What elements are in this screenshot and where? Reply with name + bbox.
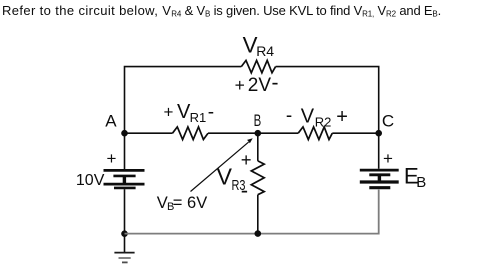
wire middle-right: R2 to node C — [332, 132, 378, 134]
svg-text:B: B — [254, 111, 262, 130]
svg-text:-: - — [286, 106, 292, 127]
label -VR2+ — [286, 105, 348, 129]
svg-text:2V: 2V — [248, 75, 272, 96]
svg-text:C: C — [382, 112, 394, 131]
label EB — [404, 163, 426, 191]
node C junction dot — [375, 130, 382, 137]
svg-text:R2: R2 — [315, 114, 332, 129]
wire top-right: from R4 to right vertical down to battery EB — [276, 67, 379, 169]
node B junction dot — [254, 130, 261, 137]
svg-text:B: B — [416, 174, 426, 191]
svg-text:+: + — [241, 149, 252, 170]
wire middle-left: node A to resistor R1 — [125, 132, 173, 134]
svg-text:-: - — [272, 72, 279, 95]
wire top-left: from top-left corner to resistor R4 — [125, 67, 242, 134]
battery EB (right) — [360, 170, 399, 188]
svg-text:Refer to the circuit below, VR: Refer to the circuit below, VR4 & VB is … — [2, 3, 441, 19]
svg-text:A: A — [105, 111, 117, 130]
svg-text:10V: 10V — [76, 172, 105, 189]
wire middle-center: R1 through node B to resistor R2 — [208, 132, 298, 134]
node A junction dot — [121, 130, 128, 137]
label VR3 — [217, 164, 246, 195]
annotation arrow pointing to node B — [191, 138, 253, 191]
resistor R4 — [241, 60, 275, 72]
svg-text:R4: R4 — [256, 43, 274, 59]
svg-text:R3: R3 — [232, 177, 246, 194]
svg-text:V: V — [301, 105, 315, 127]
bottom-left junction dot — [121, 230, 128, 237]
wire R3 down to bottom node — [257, 195, 259, 234]
label VR4 — [243, 33, 275, 60]
resistor R2 — [298, 127, 332, 140]
label VB = 6V — [157, 194, 207, 213]
svg-text:R1: R1 — [190, 110, 207, 125]
svg-text:+: + — [164, 103, 174, 122]
wire B down to resistor R3 — [257, 133, 259, 161]
wire gray: right vertical below EB and bottom return wire — [125, 190, 379, 234]
svg-text:= 6V: = 6V — [173, 194, 207, 212]
svg-text:+: + — [383, 149, 393, 168]
svg-text:+: + — [107, 149, 117, 168]
label +2V- for R4 — [235, 72, 279, 96]
svg-text:+: + — [336, 106, 348, 128]
battery 10V (left) — [104, 170, 145, 188]
wire left vertical below battery down to ground node — [124, 189, 126, 237]
resistor R3 (vertical) — [251, 161, 264, 195]
svg-text:-: - — [208, 102, 214, 123]
wire left vertical above battery — [124, 133, 126, 169]
resistor R1 — [173, 127, 209, 140]
bottom node B junction dot — [254, 230, 261, 237]
label +VR1- — [164, 101, 215, 125]
ground — [114, 238, 134, 263]
svg-text:+: + — [235, 75, 245, 95]
